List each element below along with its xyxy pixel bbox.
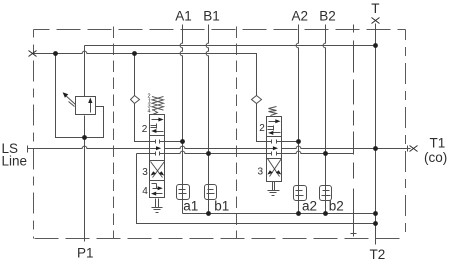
- svg-text:3: 3: [258, 166, 264, 177]
- svg-text:B1: B1: [203, 8, 220, 23]
- svg-text:a2: a2: [302, 198, 317, 213]
- svg-text:b2: b2: [329, 198, 344, 213]
- svg-text:2: 2: [142, 124, 148, 135]
- svg-text:A1: A1: [175, 8, 192, 23]
- svg-text:b1: b1: [214, 198, 229, 213]
- svg-text:3: 3: [142, 167, 148, 178]
- svg-text:Line: Line: [2, 153, 28, 168]
- svg-text:(co): (co): [424, 150, 447, 165]
- svg-text:P1: P1: [77, 246, 94, 261]
- svg-text:B2: B2: [319, 8, 336, 23]
- svg-text:2: 2: [259, 123, 265, 134]
- svg-text:T: T: [371, 1, 379, 16]
- svg-text:a1: a1: [183, 198, 198, 213]
- svg-text:4: 4: [148, 109, 151, 115]
- svg-text:T1: T1: [430, 135, 446, 150]
- svg-text:T2: T2: [370, 247, 386, 262]
- svg-text:A2: A2: [292, 8, 309, 23]
- svg-text:4: 4: [142, 186, 148, 197]
